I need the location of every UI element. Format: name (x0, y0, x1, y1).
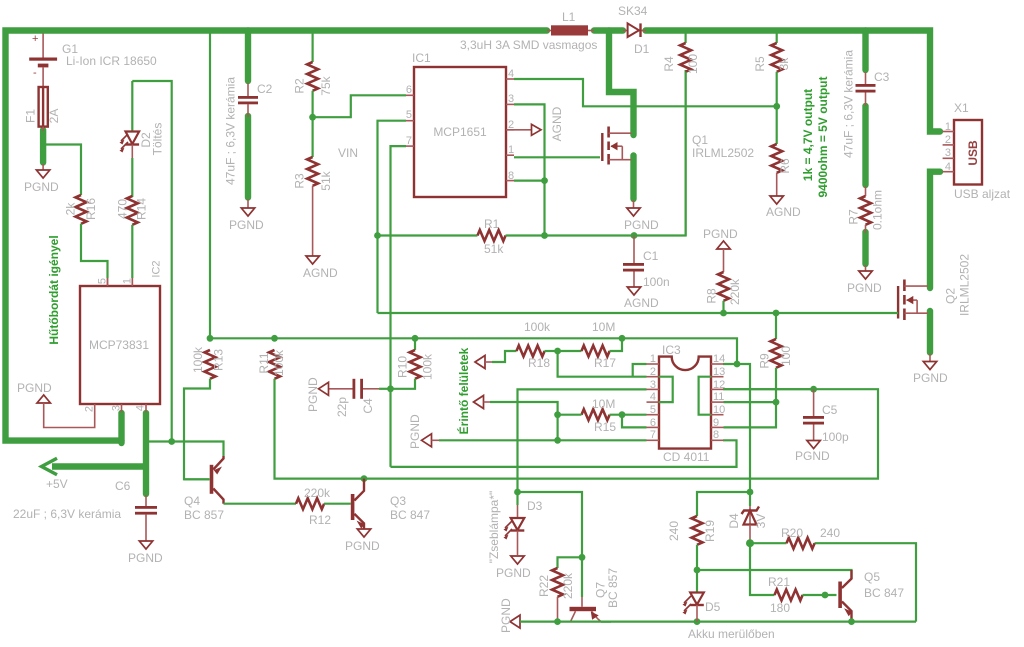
pin 4 X1 (945, 161, 951, 173)
pin 1 IC1 (508, 144, 514, 156)
ground PGND IC2 pin2 (17, 381, 95, 428)
svg-text:9: 9 (713, 417, 719, 429)
label D3 (527, 499, 543, 513)
label R3 51k (319, 170, 333, 190)
ground PGND Q3 (345, 529, 380, 553)
wire D2 anode to +5V net vertical (132, 81, 171, 442)
label R2 75k (319, 75, 333, 95)
label R20 (781, 526, 803, 540)
svg-text:PGND: PGND (128, 551, 163, 565)
svg-text:22uF ; 6,3V kerámia: 22uF ; 6,3V kerámia (13, 507, 121, 521)
resistor R10 (391, 338, 421, 389)
wire R14 to IC2 pin1 (131, 225, 133, 286)
wire thick battery fuse to PGND (40, 130, 46, 163)
resistor R15 (558, 409, 647, 420)
wire D4 to R20 and right vertical (750, 543, 916, 621)
wire R15 right to IC3 pin6 (622, 415, 647, 428)
svg-text:PGND: PGND (24, 180, 59, 194)
pin 2 IC3 (650, 366, 656, 378)
label CD 4011 (663, 450, 710, 464)
wire IC3 pin12 stub to C5 row (724, 388, 814, 390)
label C2 (257, 82, 273, 96)
svg-text:F1: F1 (24, 109, 38, 123)
label R8 220k (728, 278, 742, 305)
svg-text:6: 6 (406, 84, 412, 96)
transistor Q1 (602, 127, 631, 165)
label R19 240 (667, 521, 681, 541)
ground PGND D3 (496, 556, 531, 580)
wire IC3 inner pins 13 10 (699, 377, 711, 415)
pin 6 IC3 (650, 417, 656, 429)
ground PGND R7 (847, 265, 882, 295)
transistor Q5 (838, 570, 852, 622)
label Érintő felületek (456, 347, 471, 434)
wire thick rail D1 to USB pin1 corner (646, 31, 941, 132)
pin 1 X1 (945, 121, 951, 133)
svg-text:13: 13 (713, 366, 725, 378)
pin 13 IC3 (713, 366, 725, 378)
node junction R15 right (619, 411, 626, 418)
label R5 (753, 56, 767, 72)
svg-text:AGND: AGND (303, 266, 338, 280)
label MCP1651 (433, 125, 487, 139)
node touch pad arrow 1 (475, 356, 494, 369)
wire R16 net from battery to IC2 pin5 (43, 145, 81, 196)
svg-text:SK34: SK34 (618, 4, 648, 18)
node junction R13 top (207, 335, 214, 342)
node junction Q7 base top (579, 554, 586, 561)
resistor R12 (296, 498, 351, 509)
wire R13 top column from rail (209, 32, 211, 338)
svg-text:4: 4 (650, 391, 656, 403)
svg-text:10: 10 (713, 404, 725, 416)
svg-text:BC 847: BC 847 (390, 508, 430, 522)
svg-text:12: 12 (713, 379, 725, 391)
label R8 (705, 288, 719, 304)
wire IC1 pin4 jog to R5 R6 junction (514, 79, 777, 106)
svg-text:BC 847: BC 847 (864, 586, 904, 600)
svg-text:PGND: PGND (496, 566, 531, 580)
label R15 (594, 420, 616, 434)
svg-text:3k: 3k (777, 57, 791, 71)
wire thick C3 bottom to R7 (862, 106, 868, 185)
label R18 100k (524, 320, 551, 334)
label R10 (396, 356, 410, 378)
svg-text:PGND: PGND (306, 377, 320, 412)
label R3 (293, 173, 307, 189)
label R22 220k (561, 572, 575, 599)
resistor R3 (307, 117, 318, 256)
label 9400ohm = 5V output (816, 76, 830, 197)
svg-text:VIN: VIN (338, 146, 358, 160)
op-amp IC2 MCP73831 (80, 278, 160, 413)
svg-text:47uF ; 6,3V kerámia: 47uF ; 6,3V kerámia (224, 77, 238, 185)
svg-text:R22: R22 (537, 575, 551, 597)
node junction C4 R10 (387, 385, 394, 392)
svg-text:X1: X1 (954, 101, 969, 115)
transistor Q3 (351, 479, 365, 529)
node junction R18 R17 (554, 348, 561, 355)
svg-text:7: 7 (406, 135, 412, 147)
svg-text:51k: 51k (319, 170, 333, 190)
wire thick IC2 pin3 stub up (118, 413, 124, 443)
svg-text:100k: 100k (272, 349, 286, 376)
svg-text:+: + (32, 33, 38, 45)
label R5 3k (777, 57, 791, 71)
label R13 100k (191, 346, 205, 373)
pin 7 IC1 (406, 135, 412, 147)
svg-text:5: 5 (406, 109, 412, 121)
svg-text:Érintő felületek: Érintő felületek (456, 347, 471, 434)
node junction R19 bottom (694, 567, 701, 574)
svg-text:D3: D3 (527, 499, 543, 513)
resistor R17 (558, 338, 622, 356)
label R4 100 (686, 54, 700, 74)
label Q5 BC 847 (864, 586, 904, 600)
svg-text:1k = 4,7V output: 1k = 4,7V output (801, 89, 815, 181)
resistor R11 (269, 350, 280, 379)
svg-text:C2: C2 (257, 82, 273, 96)
label X1 (954, 101, 969, 115)
svg-text:Q2: Q2 (944, 288, 958, 304)
wire bottom rail (520, 620, 916, 622)
label C5 (822, 403, 838, 417)
wire IC1 pin3 down to pin8 (514, 104, 545, 235)
svg-text:3V: 3V (754, 514, 768, 529)
node junction R8 top (720, 310, 727, 317)
svg-text:100p: 100p (822, 430, 849, 444)
wire R11 bottom to Q3 collector row (275, 379, 879, 479)
svg-text:C3: C3 (874, 70, 890, 84)
label C5 100p (822, 430, 849, 444)
svg-text:R6: R6 (778, 158, 792, 174)
node junction Q3 collector (361, 475, 368, 482)
label R16 (84, 198, 98, 220)
svg-text:C1: C1 (643, 249, 659, 263)
diode D4 zener (742, 492, 760, 542)
label R12 (309, 513, 331, 527)
svg-text:Q4: Q4 (184, 494, 200, 508)
node junction IC3 pin14 (734, 361, 741, 368)
svg-text:1: 1 (122, 278, 134, 284)
pin 2 IC1 (508, 119, 514, 131)
resistor R13 (205, 350, 216, 379)
svg-text:220k: 220k (561, 572, 575, 599)
svg-text:3: 3 (945, 147, 951, 159)
svg-text:PGND: PGND (703, 227, 738, 241)
label R9 (758, 353, 772, 369)
label R2 (293, 78, 307, 94)
node junction R22 bottom (554, 618, 561, 625)
wire R1 right to R4 corner (506, 70, 686, 236)
capacitor C3 (856, 72, 876, 106)
transistor Q4 (184, 456, 224, 504)
svg-text:100: 100 (779, 346, 793, 366)
svg-text:Li-Ion ICR 18650: Li-Ion ICR 18650 (66, 54, 157, 68)
svg-text:100k: 100k (191, 346, 205, 373)
svg-text:470: 470 (116, 199, 130, 219)
label Akku merülőben (688, 627, 775, 641)
label C4 22p (335, 397, 349, 417)
svg-text:9400ohm = 5V output: 9400ohm = 5V output (816, 76, 830, 197)
ground PGND bottom left arrow (499, 598, 520, 633)
svg-text:C5: C5 (822, 403, 838, 417)
label C6 value (13, 507, 121, 521)
svg-text:Q1: Q1 (692, 133, 708, 147)
label D4 (727, 513, 741, 529)
svg-text:R4: R4 (662, 56, 676, 72)
svg-text:1: 1 (945, 121, 951, 133)
label C4 (361, 398, 375, 414)
wire thick battery rail top and left border to IC2 pin3 (6, 31, 548, 441)
pin 9 IC3 (713, 417, 719, 429)
svg-text:R15: R15 (594, 420, 616, 434)
wire feedback net R13 R11 R10 R17 to IC3 pin14 (210, 338, 737, 364)
resistor R8 (718, 272, 729, 313)
label MCP73831 (89, 338, 149, 352)
pin 5 IC1 (406, 109, 412, 121)
pin 2 X1 (945, 134, 951, 146)
svg-text:3: 3 (111, 405, 123, 411)
node junction Q5 base (822, 592, 829, 599)
svg-text:PGND: PGND (913, 371, 948, 385)
ground AGND C1 (624, 287, 659, 310)
wire thick IC2 pin4 down to C6 (143, 413, 149, 494)
svg-text:Akku merülőben: Akku merülőben (688, 627, 775, 641)
label SK34 (618, 4, 648, 18)
label R16 2k (64, 202, 78, 216)
label R14 (135, 198, 149, 220)
wire thick X1 pin4 down to Q2 drain (930, 172, 940, 288)
capacitor C5 (803, 389, 824, 440)
label L1 value (460, 38, 597, 52)
svg-text:BC 857: BC 857 (184, 508, 224, 522)
label Hűtőbordát igényel (47, 235, 61, 344)
svg-text:220k: 220k (728, 278, 742, 305)
pin 8 IC3 (713, 429, 719, 441)
svg-text:C4: C4 (361, 398, 375, 414)
svg-text:2: 2 (84, 406, 96, 412)
resistor R19 (692, 516, 703, 570)
label C1 100n (643, 275, 670, 289)
label Q1 (692, 133, 708, 147)
diode D1 SK34 (623, 23, 646, 37)
svg-text:10M: 10M (592, 397, 615, 411)
svg-text:BC 857: BC 857 (606, 568, 620, 608)
logic gate IC3 CD4011 (647, 357, 724, 449)
svg-text:4: 4 (945, 161, 951, 173)
label R1 51k (484, 242, 504, 256)
wire touch pad 2 to R15 column (490, 402, 558, 440)
label F1 (24, 109, 38, 123)
wire R2R3 junction to IC1 pin6 (313, 95, 406, 117)
svg-text:Q5: Q5 (864, 570, 880, 584)
ground PGND battery (24, 164, 59, 194)
pin 4 IC1 (508, 68, 514, 80)
resistor R21 (775, 590, 837, 601)
svg-text:PGND: PGND (345, 539, 380, 553)
label Q4 (184, 494, 200, 508)
svg-text:AGND: AGND (624, 296, 659, 310)
pin 4 IC3 (650, 391, 656, 403)
svg-text:8: 8 (508, 170, 514, 182)
svg-text:R3: R3 (293, 173, 307, 189)
pin 3 IC2 (111, 405, 123, 411)
label USB (966, 140, 980, 166)
svg-text:AGND: AGND (766, 205, 801, 219)
node junction R9 bottom (773, 399, 780, 406)
label 1k = 4,7V output (801, 89, 815, 181)
pin 3 X1 (945, 147, 951, 159)
svg-text:IC2: IC2 (151, 260, 163, 277)
label VIN (338, 146, 358, 160)
svg-text:240: 240 (820, 526, 840, 540)
label R13 (212, 349, 226, 371)
node junction pin8 (541, 177, 548, 184)
node touch pad arrow 2 (474, 396, 493, 409)
resistor R6 (771, 106, 782, 196)
svg-text:0.1ohm: 0.1ohm (871, 190, 885, 230)
wire IC3 inner pins 2 4 (659, 377, 673, 402)
pin 1 IC3 (650, 353, 656, 365)
wire touch pad 1 to R18 (492, 351, 517, 362)
svg-text:R21: R21 (768, 575, 790, 589)
svg-text:R12: R12 (309, 513, 331, 527)
label R11 100k (272, 349, 286, 376)
capacitor C1 (623, 236, 644, 288)
wire thick drop from rail to Q1 drain (609, 31, 634, 136)
svg-text:100k: 100k (421, 353, 435, 380)
label R11 (257, 352, 271, 373)
wire thick +5V line (42, 458, 147, 475)
wire R1 line (378, 234, 478, 236)
svg-text:PGND: PGND (408, 414, 422, 449)
svg-text:PGND: PGND (229, 218, 264, 232)
svg-text:5: 5 (650, 404, 656, 416)
wire touch net to IC3 pins 1 2 (558, 351, 647, 377)
label R9 100 (779, 346, 793, 366)
svg-text:USB aljzat: USB aljzat (954, 187, 1011, 201)
wire +5V branch to Q4 emitter (146, 442, 224, 457)
svg-text:14: 14 (713, 353, 725, 365)
capacitor C2 (238, 83, 258, 117)
label USB aljzat (954, 187, 1011, 201)
label C6 (115, 479, 131, 493)
svg-text:2k: 2k (64, 202, 78, 216)
label Q5 (864, 570, 880, 584)
capacitor C6 (135, 495, 157, 541)
label Q7 BC 857 (606, 568, 620, 608)
svg-text:CD 4011: CD 4011 (663, 450, 710, 464)
svg-text:C6: C6 (115, 479, 131, 493)
label R20 240 (820, 526, 840, 540)
wire IC3 pin8 to pin7 of IC1 row (391, 440, 737, 467)
label R12 220k (304, 486, 331, 500)
pin 4 IC2 (135, 405, 147, 411)
svg-text:AGND: AGND (550, 106, 564, 141)
label R21 180 (770, 601, 790, 615)
LED D5 (683, 570, 704, 622)
wire thick C3 top drop from rail (862, 31, 868, 71)
pin 6 IC1 (406, 84, 412, 96)
pin 7 IC3 (650, 429, 656, 441)
svg-text:Hűtőbordát igényel: Hűtőbordát igényel (47, 235, 61, 344)
svg-text:+5V: +5V (46, 477, 68, 491)
resistor R2 (307, 34, 318, 118)
transistor Q7 (558, 597, 611, 622)
svg-text:"Zseblámpa*": "Zseblámpa*" (487, 491, 501, 564)
svg-text:1: 1 (508, 144, 514, 156)
resistor R16 (76, 195, 87, 224)
svg-text:MCP1651: MCP1651 (433, 125, 487, 139)
svg-text:47uF ; 6,3V kerámia: 47uF ; 6,3V kerámia (842, 50, 856, 158)
label G1 (62, 42, 78, 56)
wire R13 bottom to Q4 base (184, 379, 210, 480)
node junction pin8 column R1 (541, 232, 548, 239)
pin 14 IC3 (713, 353, 725, 365)
svg-text:-: - (33, 67, 37, 79)
svg-text:22p: 22p (335, 397, 349, 417)
svg-text:100: 100 (686, 54, 700, 74)
label Q1 IRLML2502 (692, 146, 754, 160)
svg-text:R5: R5 (753, 56, 767, 72)
label IC2 (151, 260, 163, 277)
wire R19 top row from D4 column (697, 492, 750, 516)
wire R16 to IC2 pin5 (81, 224, 108, 286)
pin 8 IC1 (508, 170, 514, 182)
svg-text:R13: R13 (212, 349, 226, 371)
node junction Q5 emitter (848, 618, 855, 625)
svg-text:100k: 100k (524, 320, 551, 334)
svg-text:PGND: PGND (795, 449, 830, 463)
ground PGND C4 (306, 377, 329, 412)
resistor R18 (517, 346, 558, 357)
node +5V label (46, 477, 68, 491)
resistor R7 (860, 186, 871, 233)
resistor R4 (680, 34, 691, 237)
pin 5 IC2 (97, 278, 109, 284)
resistor R5 (771, 34, 782, 107)
svg-text:R17: R17 (594, 356, 616, 370)
svg-text:R2: R2 (293, 78, 307, 94)
op-amp IC1 MCP1651 (406, 67, 514, 197)
fuse F1 (39, 87, 48, 131)
svg-text:R7: R7 (847, 209, 861, 225)
ground AGND R3 (303, 256, 338, 280)
wire IC1 pin5 to R1 line and gate net column (378, 121, 407, 313)
node junction pin5 R1 (374, 232, 381, 239)
svg-text:220k: 220k (304, 486, 331, 500)
svg-text:5: 5 (97, 278, 109, 284)
node junction +5V branch (168, 438, 175, 445)
svg-text:R10: R10 (396, 356, 410, 378)
label R1 (484, 217, 500, 231)
wire thick Q2 source to PGND (927, 311, 933, 353)
wire thick C2 bottom to PGND (245, 116, 251, 198)
wire D4 down to R21 (750, 543, 775, 595)
connector X1 USB (943, 120, 982, 185)
capacitor C4 (329, 379, 391, 399)
resistor R1 (478, 230, 506, 241)
pin 5 IC3 (650, 404, 656, 416)
svg-text:6: 6 (650, 417, 656, 429)
svg-text:PGND: PGND (847, 281, 882, 295)
label R10 100k (421, 353, 435, 380)
ground PGND touch row arrow (408, 414, 432, 449)
node junction D5 bottom (694, 618, 701, 625)
label Q7 (594, 582, 608, 598)
svg-text:R19: R19 (703, 520, 717, 542)
